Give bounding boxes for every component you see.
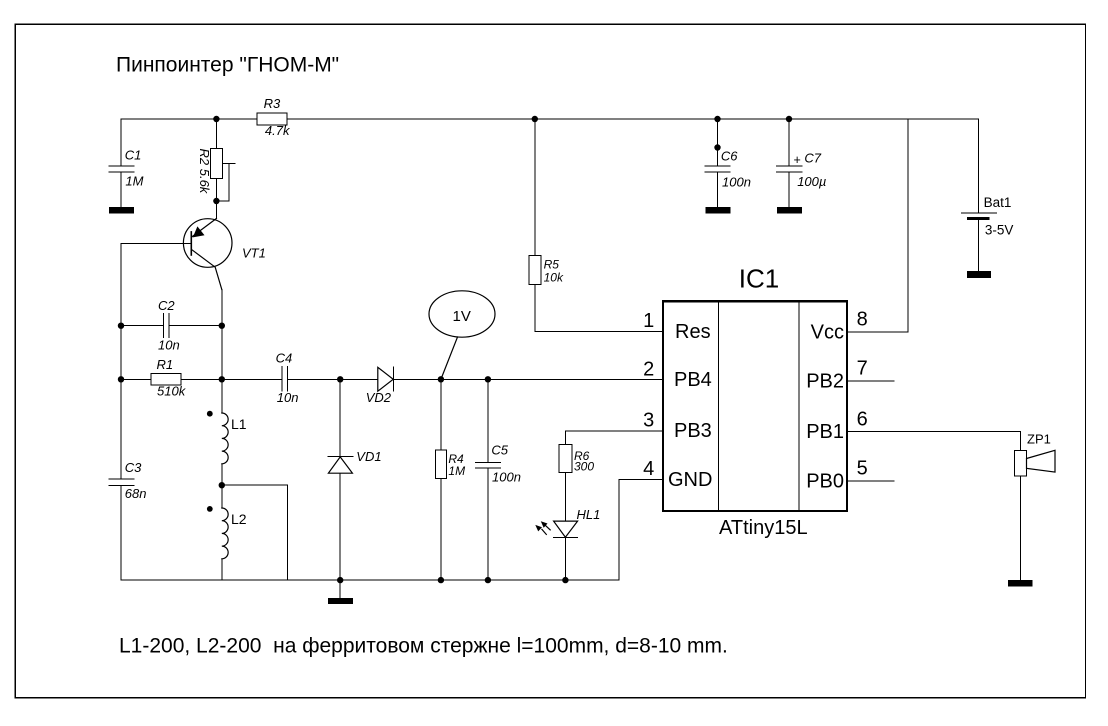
ground at C1 <box>109 207 134 213</box>
svg-text:PB0: PB0 <box>806 471 844 493</box>
resistor R1 <box>151 374 181 386</box>
wire R6 to IC pin3 <box>565 430 663 432</box>
svg-text:300: 300 <box>574 459 594 473</box>
buzzer ZP1 body <box>1015 450 1027 580</box>
ground at bus <box>328 580 353 604</box>
node C2 right <box>219 323 225 329</box>
svg-text:68n: 68n <box>125 486 147 501</box>
wire top rail left of R3 <box>121 118 257 120</box>
battery Bat1 <box>961 119 996 271</box>
diode VD1 stem and bar <box>328 379 353 580</box>
svg-text:6: 6 <box>857 409 868 431</box>
wire L2 bottom <box>221 559 223 580</box>
wire C2 row left <box>121 325 163 327</box>
svg-text:4: 4 <box>643 458 654 480</box>
IC1 box <box>663 301 847 511</box>
svg-text:C7: C7 <box>804 151 821 166</box>
ground at C7 <box>777 207 802 213</box>
svg-text:100n: 100n <box>492 470 521 485</box>
svg-text:R2 5.6k: R2 5.6k <box>197 149 212 195</box>
svg-text:PB4: PB4 <box>674 369 712 391</box>
node R2 bottom junction <box>213 198 219 204</box>
capacitor C7 <box>777 119 802 207</box>
svg-text:PB1: PB1 <box>806 421 844 443</box>
svg-text:+: + <box>794 153 801 167</box>
resistor R2 <box>210 148 222 178</box>
node R4 bus junction <box>438 577 444 583</box>
node tap junction <box>219 482 225 488</box>
wire R1 row right <box>181 378 222 380</box>
svg-text:10n: 10n <box>277 390 299 405</box>
diode VD2 triangle <box>378 367 393 391</box>
node HL1 bus junction <box>562 577 568 583</box>
svg-text:1: 1 <box>643 310 654 332</box>
svg-text:C6: C6 <box>721 149 738 164</box>
svg-text:C3: C3 <box>125 460 142 475</box>
node VD1 top <box>337 376 343 382</box>
svg-text:100µ: 100µ <box>797 174 826 189</box>
wire left vertical <box>120 244 122 480</box>
capacitor C2 <box>163 314 169 338</box>
wire pin5 stub <box>847 480 894 482</box>
wire bottom bus <box>121 579 619 581</box>
svg-text:C2: C2 <box>158 298 175 313</box>
node C6 rail junction <box>714 116 720 122</box>
svg-text:Bat1: Bat1 <box>984 195 1012 210</box>
svg-text:HL1: HL1 <box>577 507 601 522</box>
wire R2 top <box>215 119 217 148</box>
node C7 rail junction <box>786 116 792 122</box>
wire pin6 to ZP1 <box>847 431 1020 450</box>
wire R1 row left <box>121 378 151 380</box>
svg-text:IC1: IC1 <box>739 263 779 293</box>
svg-text:PB2: PB2 <box>806 370 844 392</box>
svg-text:Пинпоинтер "ГНОМ-М": Пинпоинтер "ГНОМ-М" <box>116 54 339 77</box>
svg-text:PB3: PB3 <box>674 420 712 442</box>
callout 1V oval <box>429 291 495 380</box>
ground at ZP1 <box>1008 580 1033 587</box>
wire mid row to C4 <box>222 378 282 380</box>
svg-text:R1: R1 <box>157 357 174 372</box>
diode VD1 triangle <box>328 457 352 473</box>
wire L1 to tap <box>221 464 223 508</box>
svg-text:3: 3 <box>643 410 654 432</box>
svg-text:VD2: VD2 <box>366 390 392 405</box>
node VD1 bus junction <box>337 577 343 583</box>
ground at C6 <box>705 207 730 213</box>
svg-text:C4: C4 <box>276 350 293 365</box>
svg-text:1M: 1M <box>448 464 465 478</box>
capacitor C4 <box>282 367 288 391</box>
svg-text:C1: C1 <box>125 147 142 162</box>
wire R5 to IC pin1 <box>535 331 663 333</box>
svg-text:2: 2 <box>643 359 654 381</box>
svg-text:1V: 1V <box>453 308 471 325</box>
svg-text:L1: L1 <box>231 416 247 432</box>
wire base to left vertical <box>121 243 191 245</box>
node C6 stray dot <box>714 144 720 150</box>
svg-text:10k: 10k <box>544 271 564 285</box>
transistor VT1 <box>183 219 232 290</box>
svg-text:510k: 510k <box>157 384 187 399</box>
wire VD2 to IC pin2 <box>394 378 663 380</box>
node R5 rail junction <box>532 116 538 122</box>
node R2 top junction <box>213 116 219 122</box>
svg-text:C5: C5 <box>491 443 508 458</box>
inductor L1 <box>222 413 228 464</box>
capacitor C6 <box>705 119 730 207</box>
node C5 bus junction <box>485 577 491 583</box>
node L2 polarity dot <box>207 506 213 512</box>
wire C4 to VD2 <box>287 378 377 380</box>
capacitor C3 <box>109 479 134 580</box>
wire GND pin4 riser <box>619 479 663 580</box>
svg-text:3-5V: 3-5V <box>985 222 1014 237</box>
wire collector vertical <box>221 290 223 380</box>
wire to L1 <box>221 379 223 413</box>
resistor R3 <box>257 113 287 125</box>
svg-text:Vcc: Vcc <box>811 322 844 344</box>
svg-text:ATtiny15L: ATtiny15L <box>719 517 808 539</box>
capacitor C5 <box>476 379 501 580</box>
svg-text:L1-200, L2-200 на ферритовом: L1-200, L2-200 на ферритовом стержне l=1… <box>119 634 728 657</box>
svg-text:VD1: VD1 <box>356 449 381 464</box>
LED HL1 cathode bar and wire <box>554 538 578 580</box>
svg-text:1M: 1M <box>125 174 143 189</box>
svg-text:5: 5 <box>857 458 868 480</box>
wire C2 row right <box>169 325 222 327</box>
node R1 left <box>118 376 124 382</box>
svg-text:R5: R5 <box>544 258 560 272</box>
svg-text:L2: L2 <box>231 511 247 527</box>
ground at Bat1 <box>967 271 991 278</box>
wire VT1 top lead <box>215 201 217 219</box>
resistor R6 <box>559 431 572 521</box>
node L1 polarity dot <box>207 411 213 417</box>
wire tap to bus <box>222 485 287 580</box>
svg-text:R3: R3 <box>264 96 281 111</box>
capacitor C1 <box>109 119 134 207</box>
svg-text:100n: 100n <box>722 174 751 189</box>
resistor R5 <box>529 119 541 332</box>
node C2 left <box>118 323 124 329</box>
resistor R4 <box>435 379 446 580</box>
svg-text:GND: GND <box>668 469 712 491</box>
wire pin8 to rail <box>847 119 908 332</box>
svg-text:10n: 10n <box>158 338 180 353</box>
svg-text:8: 8 <box>857 309 868 331</box>
svg-text:ZP1: ZP1 <box>1027 431 1051 446</box>
wiper tap of R2 <box>216 164 235 202</box>
node C5 top <box>485 376 491 382</box>
inductor L2 <box>222 508 228 559</box>
wire R2 bottom <box>215 178 217 201</box>
svg-text:7: 7 <box>857 358 868 380</box>
buzzer ZP1 horn <box>1027 450 1056 472</box>
node R1 right <box>219 376 225 382</box>
wire pin7 stub <box>847 380 894 382</box>
svg-text:4.7k: 4.7k <box>265 123 291 138</box>
wire top rail right of R3 <box>287 118 979 120</box>
LED HL1 triangle and arrows <box>535 521 577 537</box>
svg-text:Res: Res <box>675 321 711 343</box>
diode VD2 cathode bar <box>393 367 395 391</box>
node R4 top <box>438 376 444 382</box>
svg-text:VT1: VT1 <box>242 246 266 261</box>
